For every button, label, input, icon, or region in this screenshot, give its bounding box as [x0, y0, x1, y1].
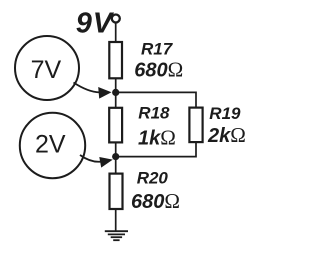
resistor R18	[109, 108, 122, 143]
svg-text:680Ω: 680Ω	[131, 189, 180, 213]
resistor R19	[189, 108, 202, 143]
wire R20 to ground	[115, 209, 117, 231]
svg-text:1kΩ: 1kΩ	[138, 126, 176, 150]
node junction A	[112, 89, 119, 96]
svg-text:R18: R18	[138, 104, 170, 123]
svg-text:R20: R20	[137, 169, 169, 188]
resistor R17	[109, 42, 122, 78]
svg-text:R19: R19	[209, 104, 241, 123]
arrow 2V to node B	[80, 155, 101, 162]
ground	[105, 231, 128, 240]
source circle 7V	[15, 36, 79, 100]
node junction B	[112, 153, 119, 160]
svg-text:9V: 9V	[76, 8, 115, 40]
svg-text:7V: 7V	[31, 56, 62, 84]
svg-text:2kΩ: 2kΩ	[207, 123, 246, 147]
node 9V terminal	[112, 15, 120, 23]
wire bottom link to R19	[116, 142, 196, 157]
wire top link to R19	[116, 92, 196, 108]
svg-text:2V: 2V	[35, 131, 66, 159]
source circle 2V	[20, 113, 85, 178]
wire R17 to R18	[115, 78, 117, 109]
svg-text:R17: R17	[141, 39, 174, 58]
wire 9V terminal to R17	[115, 23, 117, 44]
svg-text:680Ω: 680Ω	[134, 57, 183, 81]
wire R18 to R20	[115, 142, 117, 174]
arrow 7V to node A	[74, 83, 100, 93]
resistor R20	[110, 174, 123, 209]
